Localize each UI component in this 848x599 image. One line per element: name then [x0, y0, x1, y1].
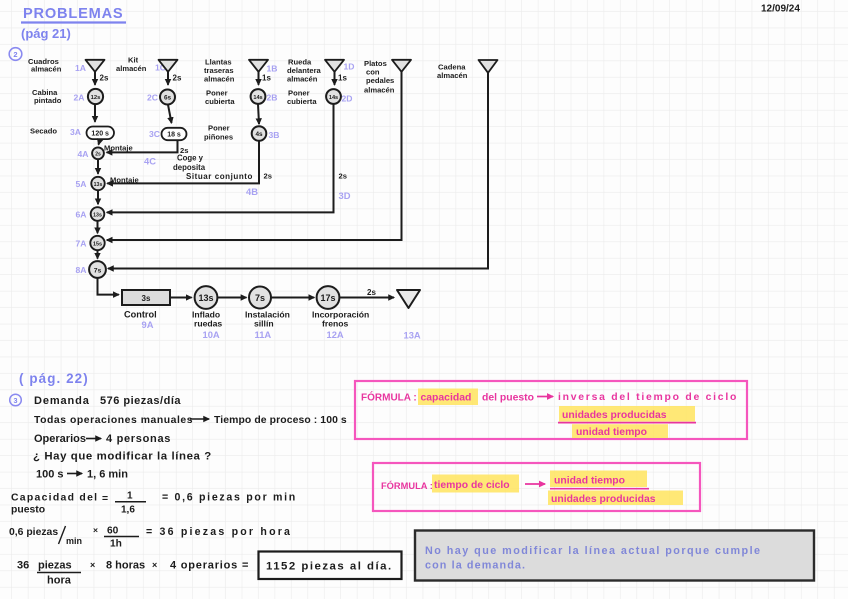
formula 1 del puesto arrow inversa — [482, 392, 738, 404]
operation circle 7A 15s — [90, 236, 104, 250]
svg-text:piñones: piñones — [204, 132, 233, 141]
storage triangle 1A — [86, 60, 105, 72]
operation circle 2C 6s — [160, 90, 175, 105]
node label 12A — [327, 329, 344, 340]
title PROBLEMAS — [21, 6, 126, 23]
text piezas al dia equation — [17, 560, 249, 587]
operation circle 11A 7s — [249, 287, 271, 309]
operation circle 2B 14s — [251, 89, 266, 104]
svg-text:Coge y: Coge y — [177, 154, 204, 163]
operation circle 2D 14s — [326, 89, 341, 104]
formula box 1 border — [355, 381, 747, 439]
label Control — [124, 310, 157, 320]
svg-text:PROBLEMAS: PROBLEMAS — [23, 6, 123, 22]
svg-text:1, 6 min: 1, 6 min — [87, 469, 128, 481]
storage triangle Platos — [392, 60, 411, 72]
operation circle 2A 12s — [88, 89, 103, 104]
svg-text:unidad tiempo: unidad tiempo — [554, 476, 625, 487]
wire 1B to 2B — [259, 72, 272, 85]
label Platos con pedales almacen — [364, 59, 395, 94]
svg-text:3: 3 — [14, 396, 18, 405]
svg-text:= 36 piezas por hora: = 36 piezas por hora — [146, 526, 292, 538]
svg-text:100 s: 100 s — [36, 469, 64, 481]
wire 7A to 8A — [97, 250, 99, 258]
svg-text:1A: 1A — [75, 63, 86, 73]
svg-text:unidades producidas: unidades producidas — [562, 410, 667, 421]
text operarios — [34, 433, 171, 445]
svg-text:7A: 7A — [76, 239, 87, 249]
svg-text:almacén: almacén — [31, 65, 62, 74]
node label 8A — [76, 265, 87, 275]
svg-text:1h: 1h — [110, 539, 122, 550]
highlight capacidad — [418, 389, 478, 406]
svg-text:del puesto: del puesto — [482, 393, 534, 404]
svg-text:13s: 13s — [198, 293, 213, 303]
svg-text:1B: 1B — [267, 64, 278, 74]
svg-text:2A: 2A — [74, 93, 85, 103]
text capacidad del puesto equation — [11, 491, 297, 516]
svg-text:×: × — [152, 560, 157, 570]
text todas operaciones — [34, 415, 347, 426]
delay oval 3C 18s — [162, 128, 187, 140]
svg-text:2s: 2s — [264, 172, 272, 181]
svg-text:pintado: pintado — [34, 96, 62, 105]
svg-text:Tiempo de proceso : 100 s: Tiempo de proceso : 100 s — [214, 415, 347, 426]
wire 3B to 5A — [107, 141, 272, 183]
node label 5A — [76, 179, 87, 189]
node label 10A — [203, 329, 220, 340]
svg-text:¿ Hay que modificar la línea: ¿ Hay que modificar la línea ? — [33, 451, 212, 463]
wire 6A to 7A — [97, 221, 99, 233]
formula 1 FORMULA label — [361, 391, 417, 404]
label Poner pinones — [204, 124, 233, 142]
svg-text:1: 1 — [127, 491, 133, 502]
node label 2B — [267, 93, 278, 103]
problem number 3 badge — [10, 394, 22, 406]
svg-text:13A: 13A — [404, 330, 421, 341]
svg-text:13s: 13s — [94, 182, 103, 188]
storage triangle 1B — [249, 60, 268, 72]
control box 3s — [122, 290, 170, 305]
svg-text:con la demanda.: con la demanda. — [425, 560, 526, 572]
svg-text:Operarios: Operarios — [34, 433, 86, 445]
svg-text:6s: 6s — [164, 95, 172, 102]
svg-text:2B: 2B — [267, 93, 278, 103]
label Cabina pintado — [32, 88, 62, 105]
formula box 2 border — [373, 463, 700, 511]
label Coge y deposita — [173, 154, 206, 172]
svg-text:hora: hora — [47, 575, 72, 587]
node label 2C — [147, 93, 158, 103]
label Kit almacen — [116, 56, 147, 73]
pag 22 label — [19, 371, 89, 386]
svg-text:×: × — [90, 560, 95, 570]
svg-text:12A: 12A — [327, 329, 344, 340]
svg-text:2C: 2C — [147, 93, 158, 103]
formula 2 FORMULA label — [381, 480, 433, 491]
svg-text:18 s: 18 s — [167, 132, 181, 139]
svg-text:36: 36 — [17, 560, 29, 572]
operation circle 3B 4s — [252, 126, 267, 141]
wire 4A to 5A — [97, 159, 99, 174]
wire 11A to 12A — [271, 297, 314, 299]
text 100s 1,6min — [36, 469, 128, 481]
svg-text:0,6 piezas: 0,6 piezas — [9, 527, 58, 538]
svg-text:Control: Control — [124, 310, 157, 320]
svg-text:1s: 1s — [262, 74, 271, 83]
node label 11A — [255, 329, 272, 340]
svg-text:FÓRMULA :: FÓRMULA : — [381, 480, 433, 491]
svg-text:12s: 12s — [91, 95, 101, 101]
wire Cadena to 8A — [108, 73, 488, 269]
svg-text:3D: 3D — [339, 190, 351, 201]
svg-text:= 0,6 piezas por min: = 0,6 piezas por min — [162, 492, 297, 504]
svg-text:1,6: 1,6 — [121, 505, 135, 516]
label Poner cubierta B — [205, 88, 235, 105]
label Montaje 5A — [110, 176, 139, 185]
svg-text:3A: 3A — [70, 127, 81, 137]
svg-text:Todas operaciones manuales: Todas operaciones manuales — [34, 415, 193, 426]
operation circle 8A 7s — [89, 261, 106, 278]
svg-text:17s: 17s — [320, 293, 335, 303]
svg-text:8 horas: 8 horas — [106, 560, 145, 572]
svg-text:9A: 9A — [142, 319, 154, 330]
conclusion gray box — [415, 531, 814, 581]
wire 10A to 11A — [218, 297, 247, 299]
svg-text:7s: 7s — [94, 267, 102, 274]
svg-text:No hay que modificar la línea: No hay que modificar la línea actual por… — [425, 545, 762, 557]
wire 2B to 3B — [258, 104, 259, 124]
svg-text:2D: 2D — [342, 94, 353, 104]
node label 1A — [75, 63, 86, 73]
svg-text:13s: 13s — [93, 212, 102, 218]
svg-text:60: 60 — [107, 526, 119, 537]
svg-text:5A: 5A — [76, 179, 87, 189]
svg-text:2s: 2s — [339, 172, 347, 181]
svg-text:almacén: almacén — [116, 64, 147, 73]
label Incorporacion frenos — [312, 310, 369, 329]
result box 1152 piezas al dia — [259, 552, 402, 580]
operation circle 10A 13s — [195, 286, 218, 309]
svg-text:Situar conjunto: Situar conjunto — [186, 172, 253, 181]
pag 21 label — [21, 26, 71, 41]
operation circle 12A 17s — [317, 286, 340, 309]
wire 1C to 2C — [168, 72, 182, 85]
node label 3C — [149, 129, 160, 139]
label Instalacion sillin — [245, 310, 290, 329]
label Cadena almacen — [437, 63, 468, 81]
node label 4A — [78, 149, 89, 159]
svg-text:almacén: almacén — [364, 85, 395, 94]
svg-text:tiempo de ciclo: tiempo de ciclo — [434, 480, 510, 491]
label Llantas traseras almacen — [204, 57, 235, 83]
svg-text:576 piezas/día: 576 piezas/día — [100, 395, 181, 407]
svg-text:120 s: 120 s — [91, 131, 109, 138]
svg-text:pedales: pedales — [366, 76, 394, 85]
svg-text:almacén: almacén — [204, 74, 235, 83]
svg-text:4B: 4B — [246, 186, 258, 197]
svg-text:piezas: piezas — [38, 560, 72, 572]
svg-text:8A: 8A — [76, 265, 87, 275]
svg-text:3B: 3B — [269, 130, 280, 140]
node label 1D — [344, 62, 355, 72]
svg-text:deposita: deposita — [173, 163, 206, 172]
node label 2A — [74, 93, 85, 103]
storage triangle 1C — [159, 60, 178, 72]
wire control to 10A — [171, 297, 192, 299]
operation circle 4A 2s — [92, 147, 104, 159]
node label 6A — [76, 210, 87, 220]
svg-text:4A: 4A — [78, 149, 89, 159]
svg-text:14s: 14s — [329, 95, 338, 101]
svg-text:cubierta: cubierta — [205, 97, 235, 106]
highlight unidades producidas — [559, 406, 695, 422]
label Rueda delantera almacen — [287, 57, 322, 83]
node label 13A — [404, 330, 421, 341]
node label 3A — [70, 127, 81, 137]
svg-text:Secado: Secado — [30, 127, 57, 136]
wire 12A to 13A — [340, 288, 395, 298]
svg-text:3C: 3C — [149, 129, 160, 139]
svg-text:Capacidad del: Capacidad del — [11, 493, 98, 504]
node label 4B — [246, 186, 258, 197]
wire Platos to 7A — [107, 72, 402, 240]
problem number 2 badge — [9, 48, 22, 61]
svg-text:( pág. 22): ( pág. 22) — [19, 371, 89, 386]
node label 1B — [267, 64, 278, 74]
label Situar conjunto — [186, 172, 253, 181]
storage triangle 13A — [397, 290, 420, 308]
node label 3D — [339, 190, 351, 201]
label Secado — [30, 127, 57, 136]
operation circle 6A 13s — [91, 207, 105, 221]
storage triangle 1D — [325, 60, 344, 72]
svg-text:3s: 3s — [142, 294, 151, 303]
svg-text:1D: 1D — [344, 62, 355, 72]
wire 2C to 3C — [168, 105, 172, 123]
svg-text:almacén: almacén — [287, 74, 318, 83]
node label 1C — [155, 63, 166, 73]
svg-text:7s: 7s — [255, 293, 265, 303]
svg-text:10A: 10A — [203, 329, 220, 340]
node label 2D — [342, 94, 353, 104]
svg-text:×: × — [93, 525, 98, 535]
highlight unidad tiempo — [572, 424, 668, 438]
highlight unidades producidas 2 — [548, 491, 683, 506]
svg-text:15s: 15s — [93, 241, 102, 247]
date 12/09/24 — [761, 4, 800, 15]
svg-text:4C: 4C — [144, 156, 156, 167]
svg-text:FÓRMULA :: FÓRMULA : — [361, 391, 417, 404]
svg-text:(pág 21): (pág 21) — [21, 26, 71, 41]
wire 8A to control box — [98, 278, 119, 295]
wire 2D to 6A — [107, 104, 347, 212]
svg-text:1s: 1s — [338, 74, 347, 83]
svg-text:unidades producidas: unidades producidas — [551, 494, 656, 505]
svg-text:1152 piezas al día.: 1152 piezas al día. — [266, 561, 393, 573]
svg-text:2s: 2s — [367, 288, 376, 297]
svg-text:4s: 4s — [255, 131, 263, 138]
svg-text:capacidad: capacidad — [421, 393, 472, 404]
svg-text:almacén: almacén — [437, 71, 468, 80]
svg-text:inversa del tiempo de ciclo: inversa del tiempo de ciclo — [558, 392, 738, 403]
node label 9A — [142, 319, 154, 330]
svg-text:Montaje: Montaje — [104, 144, 133, 153]
wire 1A to 2A — [95, 72, 109, 85]
node label 3B — [269, 130, 280, 140]
wire 3C to 4A — [107, 140, 189, 154]
delay oval 3A 120s — [87, 127, 115, 140]
svg-text:ruedas: ruedas — [194, 319, 222, 329]
node label 7A — [76, 239, 87, 249]
svg-text:2s: 2s — [95, 152, 101, 158]
svg-text:Demanda: Demanda — [34, 395, 90, 407]
svg-text:4 personas: 4 personas — [106, 433, 171, 445]
wire 3A to 4A — [99, 140, 133, 153]
svg-text:=: = — [102, 494, 108, 505]
svg-text:frenos: frenos — [322, 319, 348, 329]
wire 1D to 2D — [335, 72, 348, 85]
fraction bar formula 1 — [558, 422, 696, 424]
fraction bar formula 2 — [550, 488, 649, 490]
highlight unidad tiempo 2 — [550, 471, 647, 488]
svg-text:14s: 14s — [253, 95, 262, 101]
svg-text:cubierta: cubierta — [287, 97, 317, 106]
text piezas por hora equation — [9, 525, 292, 550]
node label 4C — [144, 156, 156, 167]
svg-text:2: 2 — [13, 50, 17, 59]
svg-text:6A: 6A — [76, 210, 87, 220]
highlight tiempo de ciclo — [432, 475, 545, 493]
wire 2A to 3A — [94, 104, 96, 122]
operation circle 5A 13s — [91, 177, 104, 190]
label Inflado ruedas — [192, 310, 222, 329]
svg-text:sillín: sillín — [254, 319, 274, 329]
svg-text:2s: 2s — [100, 74, 109, 83]
label Cuadros almacen — [28, 57, 62, 74]
svg-text:2s: 2s — [173, 74, 182, 83]
storage triangle Cadena — [479, 60, 498, 73]
svg-text:puesto: puesto — [11, 505, 45, 516]
text hay que modificar — [33, 451, 212, 463]
svg-text:min: min — [66, 536, 82, 546]
svg-text:unidad tiempo: unidad tiempo — [576, 427, 647, 438]
text demanda — [34, 395, 181, 407]
wire 5A to 6A — [97, 190, 99, 204]
svg-text:12/09/24: 12/09/24 — [761, 4, 800, 15]
svg-text:11A: 11A — [255, 329, 272, 340]
svg-text:4 operarios =: 4 operarios = — [170, 560, 249, 572]
svg-text:Poner: Poner — [208, 124, 230, 133]
label Poner cubierta D — [287, 88, 317, 105]
